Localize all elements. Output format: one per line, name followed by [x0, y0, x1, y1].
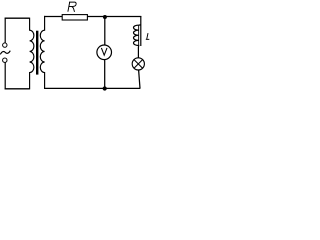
lamp cross: [134, 60, 143, 69]
wire: primary loop left vertical lower: [4, 63, 6, 90]
lamp circle: [132, 58, 144, 70]
terminal: AC source lower: [3, 58, 7, 62]
wire: voltmeter branch lower: [104, 59, 106, 88]
label R: [68, 2, 76, 12]
AC source tilde: [0, 51, 10, 55]
wire: voltmeter branch upper: [104, 17, 106, 46]
background: [0, 0, 150, 92]
inductor L winding: [134, 25, 141, 58]
node: top junction: [103, 15, 107, 19]
wire: lamp to bottom: [139, 70, 140, 89]
voltmeter V circle: [97, 45, 112, 60]
wire + inductor core line: [140, 16, 142, 46]
inductor winding chord: [138, 25, 140, 45]
transformer core: [36, 31, 38, 75]
wire: primary loop top horizontal: [5, 17, 30, 19]
transformer primary winding: [30, 18, 34, 90]
transformer secondary winding: [40, 16, 44, 89]
resistor R: [62, 15, 87, 20]
wire: secondary bottom horizontal: [44, 87, 140, 89]
voltmeter V glyph: [101, 48, 107, 55]
node: bottom junction: [103, 86, 107, 90]
wire: secondary top horizontal: [44, 16, 141, 18]
wire: primary loop bottom horizontal: [5, 88, 30, 90]
wire: primary loop left vertical upper: [4, 18, 6, 43]
terminal: AC source upper: [3, 43, 7, 47]
label L: [146, 33, 150, 39]
